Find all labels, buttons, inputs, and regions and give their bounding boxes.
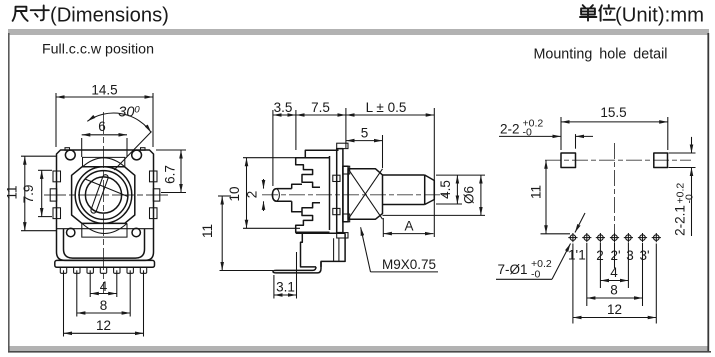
dim 8 front <box>77 270 130 316</box>
rotor chord line <box>85 179 129 197</box>
30 degree reference line <box>114 132 151 171</box>
body top notch left <box>65 148 70 151</box>
pin 2 <box>74 267 80 273</box>
mounting hole circle top-left <box>65 150 75 160</box>
svg-text:11: 11 <box>529 185 544 199</box>
svg-text:3.1: 3.1 <box>276 280 295 295</box>
center tab right <box>153 189 160 201</box>
svg-text:-0: -0 <box>684 194 696 203</box>
ext lines below holes <box>572 244 574 324</box>
svg-text:L ± 0.5: L ± 0.5 <box>366 100 407 115</box>
svg-text:-0: -0 <box>531 269 540 281</box>
svg-text:2-2.1: 2-2.1 <box>673 205 688 236</box>
body top notch right <box>141 148 146 151</box>
svg-text:Ø6: Ø6 <box>462 186 477 204</box>
side tab lower-right <box>150 208 158 219</box>
base flange <box>55 260 155 267</box>
svg-text:2': 2' <box>610 248 620 263</box>
bushing flange <box>343 166 348 222</box>
svg-text:(Unit):mm: (Unit):mm <box>615 5 704 27</box>
svg-text:7.5: 7.5 <box>311 100 330 115</box>
svg-text:8: 8 <box>610 283 618 298</box>
centerline vertical mounting <box>614 143 616 250</box>
svg-text:Mounting hole detail: Mounting hole detail <box>534 47 668 63</box>
dim 4 front <box>90 270 117 297</box>
svg-text:300: 300 <box>118 105 140 121</box>
dim L +/- 0.5 <box>346 100 434 237</box>
rotor slot <box>90 174 109 214</box>
label 7-diameter 1 <box>496 244 571 281</box>
rotor middle circle <box>79 171 128 220</box>
side body bottom edge <box>296 232 345 234</box>
dim 2 <box>245 179 264 211</box>
centerline horizontal front view <box>44 194 170 196</box>
svg-text:2-2: 2-2 <box>500 122 520 137</box>
svg-text:7-Ø1: 7-Ø1 <box>498 262 528 277</box>
body outline front view <box>57 150 154 260</box>
svg-text:6.7: 6.7 <box>163 165 178 184</box>
svg-text:Full.c.c.w position: Full.c.c.w position <box>42 42 154 58</box>
bushing thread X cross <box>348 169 382 219</box>
dim 4 mounting <box>600 265 628 281</box>
bracket tab bottom <box>337 233 348 238</box>
label M9X0.75 <box>361 227 438 272</box>
svg-text:15.5: 15.5 <box>600 105 626 120</box>
hole 1' <box>568 233 577 242</box>
bracket tab top <box>337 143 348 148</box>
pin 3 <box>87 267 93 273</box>
dim 30 degrees arc <box>87 105 151 133</box>
side pin cap oval <box>272 189 279 202</box>
bushing corner block bottom <box>343 214 350 222</box>
dim 4.5 <box>436 175 485 204</box>
bracket plate <box>337 149 343 233</box>
slot right <box>654 153 668 168</box>
side left pin <box>273 189 292 202</box>
cover seam line <box>57 228 154 230</box>
label 2-2 +0.2/-0 <box>499 118 593 149</box>
svg-text:3.5: 3.5 <box>274 100 293 115</box>
svg-text:4.5: 4.5 <box>438 180 453 199</box>
rotor inner circle <box>85 177 121 213</box>
dim 10 <box>227 158 300 229</box>
centerline vertical front view <box>103 112 105 293</box>
dim 8 mounting <box>587 283 643 299</box>
svg-text:4: 4 <box>100 279 108 294</box>
dim 5 <box>346 126 383 169</box>
dim 6 <box>82 119 127 157</box>
rotor top arc <box>83 158 125 167</box>
dim 11 mounting <box>529 160 571 234</box>
title CJK 寸 <box>31 6 49 21</box>
dim diameter 6 <box>383 175 486 215</box>
svg-text:11: 11 <box>5 185 20 199</box>
dim 12 front <box>64 270 144 336</box>
lower housing block <box>301 233 346 267</box>
svg-text:A: A <box>404 219 413 234</box>
title CJK 尺 <box>13 7 28 21</box>
cover inner line <box>64 229 145 258</box>
svg-text:10: 10 <box>227 186 242 201</box>
pin 1 <box>60 267 66 273</box>
pin 5 <box>114 267 120 273</box>
dim 2-2.1 right <box>669 137 696 236</box>
mounting hole circle bottom-left <box>67 228 75 236</box>
dim 3.1 <box>274 252 297 299</box>
centerline side view <box>262 194 448 196</box>
leader to hole 1 from above <box>575 213 585 233</box>
center tab left <box>50 189 57 201</box>
side tab upper-left <box>53 171 61 182</box>
dim 3.5 <box>273 100 296 186</box>
svg-text:12: 12 <box>607 302 622 317</box>
svg-text:14.5: 14.5 <box>91 83 117 98</box>
svg-text:4: 4 <box>610 265 618 280</box>
hole 3' <box>638 233 647 242</box>
rotor octagon boss <box>72 167 135 224</box>
side body left block <box>292 184 302 211</box>
bushing threaded body <box>348 169 382 219</box>
frame border <box>8 29 709 35</box>
side body upper teeth profile <box>296 158 330 188</box>
shaft <box>383 175 435 205</box>
centerline horizontal mounting <box>545 159 691 161</box>
svg-text:3: 3 <box>626 248 634 263</box>
svg-text:11: 11 <box>200 224 215 238</box>
svg-text:2: 2 <box>245 191 260 199</box>
pin 7 <box>140 267 146 273</box>
svg-text:5: 5 <box>361 126 369 141</box>
hole 2 <box>596 233 605 242</box>
svg-text:3': 3' <box>639 248 649 263</box>
hole 7 <box>652 233 661 242</box>
svg-text:M9X0.75: M9X0.75 <box>382 257 436 272</box>
bushing corner block top <box>343 166 350 174</box>
dim 6.7 <box>156 150 186 193</box>
dim 7.5 <box>296 100 346 148</box>
svg-text:1: 1 <box>578 248 586 263</box>
side tab upper-right <box>150 171 158 182</box>
side tab upper (body-plate) <box>333 175 340 181</box>
rotor outer circle <box>75 167 132 224</box>
mounting hole circle bottom-right <box>132 228 140 236</box>
slot left <box>561 153 576 168</box>
hole 1 <box>582 233 591 242</box>
mounting hole circle top-right <box>132 150 142 160</box>
hole 2' <box>610 233 619 242</box>
side tab lower (body-plate) <box>333 208 340 214</box>
dim A <box>383 218 433 237</box>
side body lower teeth profile <box>296 203 330 233</box>
side body top plateau <box>305 150 338 158</box>
side body right face <box>329 156 331 230</box>
svg-text:8: 8 <box>100 298 108 313</box>
rotor top band <box>83 157 125 166</box>
svg-text:(Dimensions): (Dimensions) <box>50 5 169 27</box>
lower block inner verticals <box>334 238 339 261</box>
rotor window arc <box>82 223 127 233</box>
pin 4 <box>100 267 106 273</box>
rotor window band <box>82 223 127 237</box>
bent pin bottom <box>273 262 321 273</box>
pin 6 <box>127 267 133 273</box>
dim 14.5 <box>56 83 153 148</box>
holes row <box>568 233 661 242</box>
dim 15.5 <box>561 105 668 150</box>
svg-text:6: 6 <box>98 119 106 134</box>
dim 11 side <box>200 196 273 271</box>
dim 12 mounting <box>573 302 656 318</box>
svg-text:12: 12 <box>96 318 111 333</box>
svg-text:7.9: 7.9 <box>21 185 36 204</box>
title CJK 位 <box>599 5 615 21</box>
title CJK 单 <box>580 5 596 21</box>
dim 7.9 <box>21 170 52 216</box>
dim 11 left <box>5 156 57 231</box>
side tab lower-left <box>53 208 61 219</box>
hole 3 <box>624 233 633 242</box>
